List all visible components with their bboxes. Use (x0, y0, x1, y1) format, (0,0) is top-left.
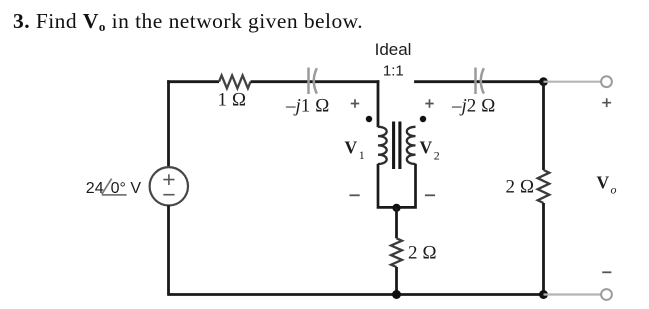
label 1:1 (383, 63, 404, 80)
label 24∠0° V (86, 179, 142, 197)
wire transformer primary top vertical (377, 80, 380, 127)
voltage source VS circle (150, 167, 188, 205)
wire transformer primary bottom leg (378, 164, 397, 208)
label 2Ω right (506, 176, 535, 197)
node top right (539, 77, 548, 86)
minus sign V1 (350, 194, 360, 196)
wire center tap down to 2Ω (395, 208, 398, 239)
svg-text:V: V (420, 137, 433, 157)
wire gray to top terminal (544, 81, 602, 83)
label Vo (597, 173, 617, 197)
wire left vertical top (source to top rail) (167, 80, 170, 166)
node bottom center (392, 290, 401, 299)
polarity dot primary (366, 116, 372, 122)
plus sign V1 (351, 99, 359, 107)
transformer core (394, 122, 400, 170)
svg-text:V: V (597, 173, 610, 193)
wire top-left horizontal (167, 80, 219, 83)
node transformer center tap (392, 204, 400, 212)
wire right rail upper (542, 82, 545, 170)
voltage source plus (163, 174, 174, 185)
capacitor C2 −j2Ω (476, 68, 484, 95)
wire bottom 2Ω to bottom rail (395, 267, 398, 295)
label −j1Ω (285, 96, 330, 117)
wire bottom rail (167, 293, 543, 296)
transformer secondary winding L2 (407, 127, 416, 164)
svg-text:2 Ω: 2 Ω (506, 176, 535, 197)
svg-text:1:1: 1:1 (383, 63, 404, 80)
polarity dot secondary (420, 116, 426, 122)
wire top middle (resistor to transformer primary corner) (251, 80, 380, 83)
resistor R 1Ω zigzag (219, 75, 251, 88)
svg-text:–j1 Ω: –j1 Ω (285, 96, 330, 117)
resistor 2Ω right zigzag (538, 170, 550, 203)
plus sign V2 (425, 99, 433, 107)
minus sign Vo (602, 271, 611, 273)
node bottom right (539, 290, 548, 299)
wire right rail lower (542, 203, 545, 295)
svg-text:o: o (611, 183, 617, 197)
svg-text:V: V (345, 137, 358, 157)
label 2Ω bottom (408, 243, 437, 264)
svg-text:2 Ω: 2 Ω (408, 243, 437, 264)
label V1 (345, 137, 365, 162)
svg-text:1: 1 (359, 148, 365, 162)
svg-text:–j2 Ω: –j2 Ω (451, 96, 496, 117)
voltage source minus (163, 194, 174, 196)
resistor 2Ω bottom zigzag (391, 238, 402, 267)
terminal top open circle (601, 76, 612, 87)
wire left vertical bottom (167, 205, 170, 294)
label −j2Ω (451, 96, 496, 117)
svg-text:24: 24 (86, 180, 104, 197)
label V2 (420, 137, 440, 162)
terminal bottom open circle (601, 289, 612, 300)
wire gray to bottom terminal (544, 293, 602, 295)
transformer primary winding L1 (378, 127, 387, 164)
label Ideal (375, 40, 412, 59)
label 1Ω (218, 90, 247, 111)
capacitor C1 −j1Ω (gray plates over wire) (309, 68, 317, 95)
svg-text:1 Ω: 1 Ω (218, 90, 247, 111)
minus sign V2 (425, 194, 435, 196)
wire transformer secondary top to right (414, 80, 543, 83)
svg-text:Ideal: Ideal (375, 40, 412, 59)
title text (13, 9, 363, 35)
svg-text:2: 2 (434, 149, 440, 163)
plus sign Vo (602, 98, 611, 107)
wire transformer secondary bottom leg (397, 164, 416, 208)
